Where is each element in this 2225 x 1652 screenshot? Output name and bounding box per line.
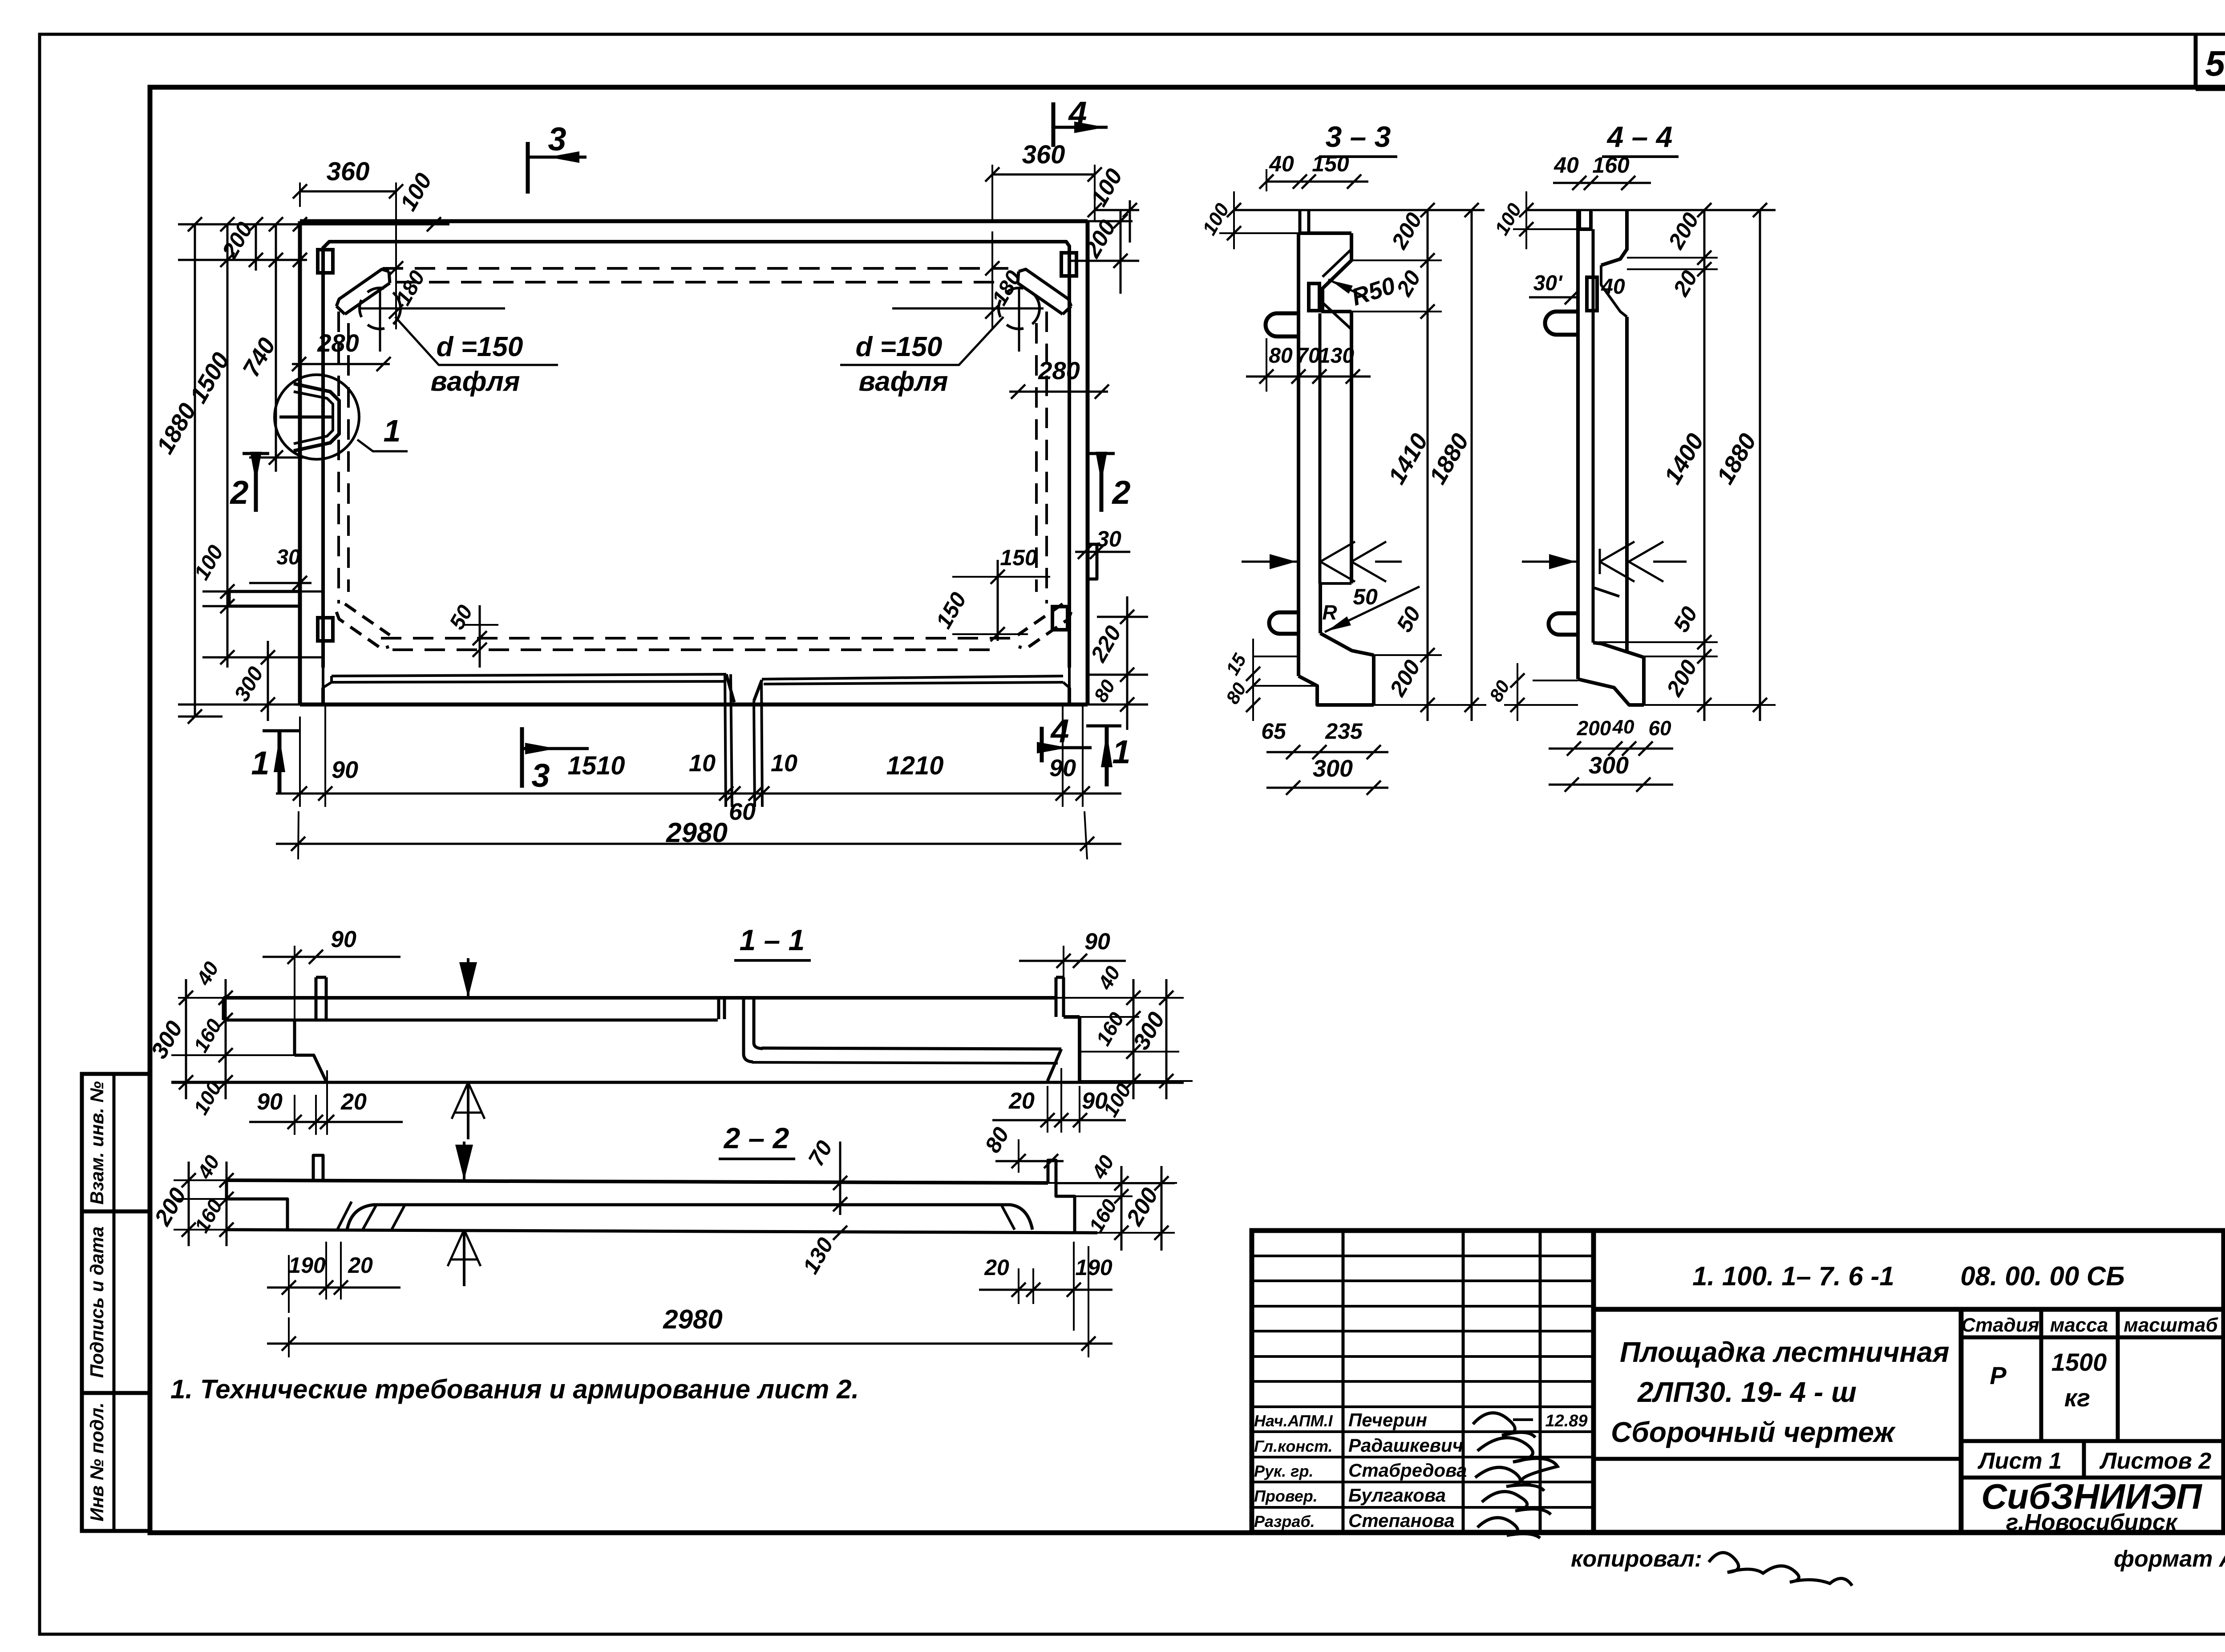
dim 200 right of corner <box>1069 260 1139 262</box>
lifting loop bottom-left <box>318 618 333 641</box>
section 4-4 dim 80 left bottom <box>1533 680 1578 681</box>
svg-text:Площадка лестничная: Площадка лестничная <box>1620 1336 1950 1368</box>
section 1-1 reaction arrow up <box>467 1082 469 1139</box>
svg-text:90: 90 <box>257 1089 283 1115</box>
svg-text:Взам. инв. №: Взам. инв. № <box>86 1081 107 1204</box>
svg-text:1: 1 <box>384 413 401 448</box>
svg-text:150: 150 <box>1000 545 1037 570</box>
section mark 3 top <box>526 142 530 194</box>
svg-text:4: 4 <box>1068 95 1087 132</box>
sheet row <box>1961 1476 2224 1480</box>
section 1-1 upper soffit left part <box>223 1019 718 1022</box>
svg-text:Инв № подл.: Инв № подл. <box>86 1402 107 1521</box>
section 2-2 bottom line <box>227 1230 1097 1233</box>
svg-text:Провер.: Провер. <box>1254 1487 1318 1505</box>
section 3-3 level arrow <box>1242 561 1299 563</box>
svg-text:Стадия: Стадия <box>1961 1314 2039 1336</box>
dim 220 80 right <box>1097 616 1148 618</box>
svg-text:4 – 4: 4 – 4 <box>1606 120 1673 153</box>
section 3-3 right dims <box>1427 210 1429 721</box>
svg-text:200: 200 <box>1577 717 1611 740</box>
section 4-4 inner web line <box>1592 229 1595 643</box>
left stamp table <box>82 1074 150 1531</box>
svg-text:280: 280 <box>1038 356 1080 385</box>
plan inner top line <box>323 242 1069 276</box>
left dim column lines <box>194 224 196 717</box>
leader d=150 left <box>395 317 558 365</box>
section 4-4 dim 100 left top <box>1525 191 1527 249</box>
section 2-2 soffit left diagonals lower <box>337 1202 352 1230</box>
svg-text:4: 4 <box>1050 713 1069 749</box>
svg-text:300: 300 <box>1313 755 1353 782</box>
svg-text:20: 20 <box>348 1253 373 1278</box>
top dim 100 left <box>396 223 449 226</box>
svg-text:2980: 2980 <box>663 1304 722 1334</box>
section mark 4 top <box>1052 102 1056 147</box>
section 2-2 right end <box>1048 1160 1056 1183</box>
svg-text:190: 190 <box>288 1253 326 1278</box>
section 3-3 R50 bottom notch <box>1320 582 1351 585</box>
section 1-1 bottom dim 90 20 left <box>249 1121 403 1123</box>
svg-text:300: 300 <box>1589 752 1629 779</box>
svg-text:60: 60 <box>729 798 756 825</box>
right edge notch 30 <box>1088 544 1097 579</box>
svg-text:60: 60 <box>1648 717 1671 740</box>
section 1-1 right end <box>1055 977 1058 1017</box>
section 3-3 chamfer pocket <box>1323 249 1351 277</box>
dim 180 plan top-left <box>395 231 397 329</box>
section 2-2 load arrow down <box>463 1142 465 1180</box>
svg-text:40: 40 <box>1612 716 1634 738</box>
section 3-3 dim 65 235 <box>1266 751 1388 753</box>
svg-text:Булгакова: Булгакова <box>1348 1485 1446 1506</box>
svg-text:1 – 1: 1 – 1 <box>740 923 805 956</box>
svg-text:90: 90 <box>331 927 356 952</box>
top dim 360 right <box>992 174 1095 176</box>
section 4-4 hook top <box>1545 312 1578 335</box>
svg-text:Нач.АПМ.I: Нач.АПМ.I <box>1254 1412 1333 1430</box>
corner chamfer top-right <box>1019 269 1071 306</box>
node leader to 1 <box>357 440 408 451</box>
svg-text:2980: 2980 <box>666 818 728 848</box>
svg-text:3 – 3: 3 – 3 <box>1326 120 1391 153</box>
plan bottom edge <box>300 703 1088 707</box>
section 4-4 level arrow <box>1522 561 1578 563</box>
svg-text:d =150: d =150 <box>856 332 943 362</box>
section 4-4 inner diagonal <box>1594 588 1619 596</box>
dim 50 bottom middle <box>463 624 498 626</box>
lifting loop top-left <box>318 250 333 273</box>
svg-text:30': 30' <box>1533 271 1563 295</box>
svg-text:2: 2 <box>1111 474 1130 511</box>
svg-text:20: 20 <box>340 1089 367 1115</box>
section 4-4 embedded plate <box>1587 277 1597 311</box>
title block outline <box>1252 1231 2224 1532</box>
svg-text:130: 130 <box>1319 344 1354 368</box>
dim 280 plan top-right <box>1009 391 1108 393</box>
svg-text:формат А3: формат А3 <box>2114 1546 2225 1572</box>
node detail circle 1 <box>275 375 359 459</box>
svg-text:30: 30 <box>1096 526 1121 551</box>
svg-text:40: 40 <box>1553 153 1579 178</box>
section 1-1 gap joint lines <box>744 998 753 1062</box>
svg-text:масштаб: масштаб <box>2124 1314 2218 1336</box>
section 4-4 top-right corner <box>1601 210 1627 265</box>
svg-text:d =150: d =150 <box>437 332 523 362</box>
bottom dim line 90-1510-10-60-10-1210-90 <box>276 793 1121 795</box>
svg-text:90: 90 <box>1084 929 1110 955</box>
svg-text:80: 80 <box>1269 344 1293 368</box>
svg-text:40: 40 <box>1269 151 1294 176</box>
top dim 360 left <box>300 190 396 193</box>
section mark 4 bottom <box>1040 727 1044 762</box>
section mark 1 bottom-left <box>263 729 299 733</box>
section 3-3 hook bottom <box>1269 612 1299 634</box>
svg-text:160: 160 <box>1592 153 1630 178</box>
dim 300 left bottom <box>267 641 269 721</box>
section 1-1 left dims <box>185 979 187 1099</box>
dim 150 150 bottom-right <box>997 560 999 641</box>
section 3-3 dim 100 left top <box>1233 191 1235 249</box>
svg-text:Подпись и дата: Подпись и дата <box>86 1227 107 1378</box>
svg-text:1210: 1210 <box>886 751 943 780</box>
section 1-1 lower soffit right part <box>762 1048 1061 1049</box>
section 2-2 soffit diagonals <box>363 1205 376 1230</box>
section 4-4 bottom flare <box>1593 643 1644 657</box>
svg-text:1500: 1500 <box>2051 1348 2107 1376</box>
leader d=150 right <box>840 317 1003 365</box>
svg-text:90: 90 <box>332 757 358 783</box>
section 3-3 R50 top leader <box>1328 279 1366 297</box>
top dim 100 right <box>1095 209 1139 211</box>
section mark 2 left <box>243 452 269 455</box>
svg-text:Стабредова: Стабредова <box>1348 1460 1467 1481</box>
left edge ledge bar <box>229 591 300 606</box>
section 2-2 bottom dim 20 190 <box>267 1287 400 1289</box>
svg-text:Рук. гр.: Рук. гр. <box>1254 1462 1314 1480</box>
svg-text:1. Технические требования: 1. Технические требования и армирование … <box>170 1374 859 1404</box>
waffle circle top-left <box>360 288 400 329</box>
svg-text:65: 65 <box>1261 719 1286 744</box>
section 4-4 top extension line <box>1526 209 1776 211</box>
svg-text:1: 1 <box>251 745 269 781</box>
svg-text:30: 30 <box>276 546 300 569</box>
section 1-1 bottom line <box>171 1081 1184 1084</box>
waffle circle top-right <box>999 288 1040 329</box>
svg-text:Степанова: Степанова <box>1348 1510 1455 1531</box>
svg-text:3: 3 <box>531 757 550 794</box>
svg-text:Разраб.: Разраб. <box>1254 1512 1315 1531</box>
svg-text:1. 100. 1– 7. 6 -1: 1. 100. 1– 7. 6 -1 <box>1692 1261 1894 1291</box>
svg-text:3: 3 <box>548 121 566 158</box>
section 3-3 hook top <box>1266 313 1299 336</box>
corner chamfer bottom-left <box>336 612 389 649</box>
plan inner left line <box>321 276 325 668</box>
svg-text:2: 2 <box>229 474 248 511</box>
svg-text:360: 360 <box>1022 140 1065 169</box>
section 1-1 load arrow down <box>467 958 469 998</box>
dim 100-30 left mid <box>202 591 325 593</box>
svg-text:кг: кг <box>2064 1384 2090 1412</box>
svg-text:10: 10 <box>689 750 716 777</box>
svg-text:г.Новосибирск: г.Новосибирск <box>2006 1510 2178 1535</box>
section 2-2 reaction arrow up <box>463 1230 465 1286</box>
svg-text:150: 150 <box>1312 151 1349 176</box>
section 4-4 top dim 40 160 <box>1553 182 1651 184</box>
dim 180 plan top-right <box>991 231 993 329</box>
svg-text:40: 40 <box>1601 275 1625 299</box>
section 3-3 inner web line <box>1319 313 1322 583</box>
svg-text:2ЛП30. 19- 4 - ш: 2ЛП30. 19- 4 - ш <box>1637 1376 1857 1408</box>
svg-text:R: R <box>1322 601 1337 624</box>
dim 740 left <box>249 457 307 459</box>
section 1-1 top dim 90 left <box>263 956 400 958</box>
bottom slab left corner <box>323 668 332 688</box>
section 3-3 top extension line <box>1234 209 1485 211</box>
section mark 2 right <box>1088 452 1115 455</box>
section 3-3 dim 300 <box>1266 787 1388 789</box>
svg-text:360: 360 <box>327 157 370 186</box>
section mark 3 bottom <box>520 727 524 788</box>
section 1-1 top dim 90 right <box>1019 960 1126 962</box>
interior dashed boundary inner <box>397 281 996 283</box>
section 3-3 bottom base <box>1299 676 1374 705</box>
section 4-4 right dims <box>1703 210 1706 721</box>
bottom slab edge lines <box>332 674 726 676</box>
section 2-2 top dim 80 right <box>995 1160 1064 1162</box>
section 4-4 hook bottom <box>1549 613 1578 635</box>
section 1-1 left end <box>293 1020 296 1055</box>
svg-text:50: 50 <box>1353 584 1378 609</box>
title block left grid <box>1342 1231 1345 1532</box>
svg-text:Сборочный чертеж: Сборочный чертеж <box>1611 1416 1896 1448</box>
svg-text:вафля: вафля <box>430 366 520 397</box>
section 3-3 dim 80 70 130 <box>1246 376 1371 378</box>
bottom slab right corner <box>1063 668 1069 688</box>
svg-text:90: 90 <box>1049 755 1076 781</box>
section 2-2 left tab <box>313 1155 323 1180</box>
section 4-4 wall ticks <box>1600 562 1634 582</box>
corner chamfer top-left <box>336 269 389 306</box>
page number box <box>2194 36 2198 89</box>
dim 30 bottom-right <box>1075 551 1130 553</box>
stage mass scale header <box>1961 1336 2224 1340</box>
section 3-3 wall ticks <box>1320 562 1355 582</box>
svg-text:Р: Р <box>1990 1361 2007 1389</box>
svg-text:10: 10 <box>771 750 797 777</box>
section 3-3 top dim 40 150 <box>1266 181 1368 183</box>
svg-text:70: 70 <box>1296 344 1320 368</box>
section 2-2 overall dim 2980 <box>267 1343 1112 1345</box>
svg-text:53: 53 <box>2205 44 2225 83</box>
svg-text:08. 00. 00 СБ: 08. 00. 00 СБ <box>1960 1261 2124 1291</box>
svg-text:Листов 2: Листов 2 <box>2099 1448 2212 1474</box>
section 2-2 bottom dim 20 190 right <box>979 1289 1112 1291</box>
dim 1500 left <box>202 656 323 659</box>
svg-text:280: 280 <box>317 329 359 357</box>
section 2-2 soffit rib line <box>347 1205 1032 1230</box>
section 2-2 dim 130 mid <box>833 1226 847 1240</box>
section 3-3 embedded plate <box>1309 283 1319 311</box>
signature scribbles <box>1473 1413 1557 1538</box>
node detail inner sketch <box>294 384 339 451</box>
svg-text:190: 190 <box>1075 1255 1112 1280</box>
section mark 1 bottom-right <box>1086 725 1121 728</box>
section 4-4 bottom toe <box>1578 679 1644 705</box>
title text cell <box>1959 1309 1964 1532</box>
svg-text:Лист 1: Лист 1 <box>1977 1448 2062 1474</box>
section 4-4 dim 300 <box>1549 784 1673 786</box>
section 2-2 top surface <box>227 1180 1048 1183</box>
svg-text:Гл.конст.: Гл.конст. <box>1254 1437 1333 1455</box>
svg-text:Печерин: Печерин <box>1348 1409 1427 1430</box>
section 2-2 dim 70 mid <box>839 1142 841 1215</box>
interior dashed boundary outer <box>383 267 1008 270</box>
section 1-1 left tab <box>315 977 318 1019</box>
svg-text:Радашкевич: Радашкевич <box>1348 1435 1463 1456</box>
plan outer outline <box>300 219 1088 223</box>
section 4-4 dim 200 40 60 <box>1549 748 1673 750</box>
plan inner right line <box>1068 276 1071 668</box>
section 1-1 right dims <box>1133 979 1135 1099</box>
section 4-4 dim 30 40 <box>1529 296 1578 299</box>
svg-text:2 – 2: 2 – 2 <box>723 1122 789 1154</box>
overall dim 2980 <box>276 843 1121 845</box>
section 2-2 left end <box>227 1180 287 1230</box>
section 1-1 bottom dim 20 90 right <box>992 1119 1126 1122</box>
section 3-3 R50 bottom leader <box>1325 587 1420 632</box>
slab gap 60 middle <box>725 674 726 807</box>
svg-text:20: 20 <box>984 1255 1009 1280</box>
lifting loop bottom-right <box>1052 607 1068 630</box>
svg-text:масса: масса <box>2050 1314 2108 1336</box>
section 2-2 right dims <box>1121 1166 1123 1251</box>
section 3-3 profile <box>1299 231 1351 235</box>
svg-text:копировал:: копировал: <box>1571 1546 1702 1572</box>
section 2-2 left dims <box>188 1162 190 1246</box>
svg-text:235: 235 <box>1325 719 1363 744</box>
section 4-4 profile <box>1576 210 1580 679</box>
svg-text:вафля: вафля <box>858 366 948 397</box>
corner chamfer bottom-right <box>1019 612 1071 649</box>
svg-text:12.89: 12.89 <box>1545 1412 1587 1430</box>
svg-text:1510: 1510 <box>567 751 625 780</box>
svg-text:1: 1 <box>1112 733 1130 770</box>
svg-text:20: 20 <box>1008 1088 1035 1114</box>
lifting loop top-right <box>1061 253 1076 276</box>
section 1-1 top surface <box>223 996 1056 1000</box>
dim 280 plan top-left <box>292 363 390 365</box>
section 3-3 dim 15 80 left bottom <box>1253 656 1299 657</box>
dim 1880 left <box>178 716 222 718</box>
